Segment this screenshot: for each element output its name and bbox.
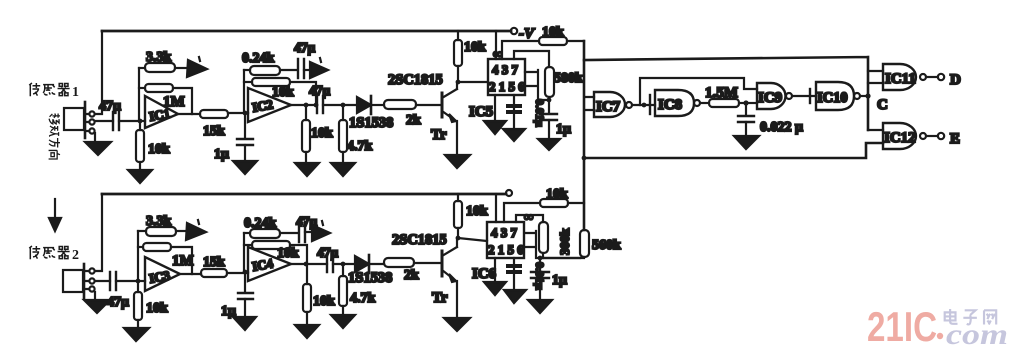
resistor 3.3k channel 2: [138, 214, 187, 236]
supply arrow at IC2 feedback: [310, 58, 328, 78]
capacitor 47u input channel 2: [95, 272, 138, 310]
ground below 4.7k: [331, 163, 355, 176]
svg-text:0.01μ: 0.01μ: [533, 262, 547, 290]
wire IC5 pin 4 to rail: [495, 31, 497, 59]
svg-text:0.24k: 0.24k: [242, 51, 275, 66]
wire IC3 output: [180, 273, 201, 275]
svg-text:0.022 μ: 0.022 μ: [760, 120, 803, 135]
svg-text:2k: 2k: [404, 268, 419, 283]
diode 1S1538 channel 1: [349, 96, 393, 131]
node IC4 input: [243, 270, 248, 275]
svg-text:2SC1815: 2SC1815: [392, 232, 447, 248]
svg-text:∞: ∞: [493, 46, 502, 61]
IC5 timer box: [469, 59, 525, 120]
wire bottom bus line: [582, 143, 883, 160]
svg-text:∞: ∞: [524, 209, 533, 224]
ground below Tr emitter channel 2: [444, 318, 470, 331]
svg-text:47μ: 47μ: [99, 99, 121, 114]
resistor 2k channel 1: [384, 100, 442, 128]
node 4.7k junction: [341, 103, 346, 108]
op-amp IC3: [138, 257, 180, 291]
svg-text:4 3 7: 4 3 7: [491, 225, 518, 240]
resistor 10k shunt after IC2: [302, 105, 333, 163]
resistor 10k feedback IC2: [244, 78, 316, 105]
svg-text:2k: 2k: [406, 113, 421, 128]
mark above IC5: [493, 46, 502, 61]
ground below 1u at IC5: [538, 139, 560, 150]
IC6 timer box: [472, 222, 524, 282]
svg-text:IC12: IC12: [884, 130, 916, 146]
capacitor 1u channel 2: [221, 272, 253, 319]
resistor 0.24k channel 2: [244, 216, 298, 238]
wire feedback left vertical IC2: [243, 70, 245, 113]
svg-text:10k: 10k: [466, 204, 488, 219]
svg-text:0.24k: 0.24k: [244, 216, 277, 231]
svg-text:15k: 15k: [203, 124, 225, 139]
svg-text:560k: 560k: [592, 238, 621, 253]
output E terminal: [926, 131, 960, 147]
resistor 10k collector pull-up channel 1: [454, 31, 486, 84]
resistor 10k collector pull-up channel 2: [454, 194, 488, 240]
svg-text:4.7k: 4.7k: [347, 139, 373, 154]
transistor Tr channel 2 (2SC1815): [392, 232, 457, 318]
wire vertical bus: [583, 41, 586, 230]
wire IC6 pin 7 loop: [516, 215, 543, 222]
supply arrow at 3.3k: [187, 57, 207, 77]
capacitor 0.01u channel 2: [506, 258, 547, 290]
svg-text:2 1 5 6: 2 1 5 6: [489, 79, 525, 94]
svg-text:IC8: IC8: [658, 97, 682, 113]
node input IC1: [138, 119, 143, 124]
wire IC5 pin 1 to ground: [484, 95, 506, 134]
svg-text:C: C: [877, 97, 888, 113]
capacitor 1u channel 1: [214, 113, 253, 162]
node after 1.5M: [743, 100, 757, 105]
ground below 10k shunt channel 2: [295, 325, 319, 338]
svg-text:10k: 10k: [311, 126, 333, 141]
capacitor 47u series channel 2: [317, 245, 355, 272]
svg-text:47μ: 47μ: [309, 83, 331, 98]
wire IC9 to IC10: [792, 89, 816, 103]
svg-text:0.01μ: 0.01μ: [533, 99, 547, 127]
resistor 15k channel 1: [200, 110, 248, 139]
svg-text:300k: 300k: [557, 228, 572, 256]
wire IC6 pin 1 to ground: [484, 258, 506, 295]
label sensor 1 (Chinese): [29, 83, 69, 96]
svg-text:D: D: [950, 72, 961, 88]
resistor 580k channel 1: [545, 67, 583, 100]
label sensor 2 (Chinese): [29, 246, 69, 259]
wire rail drop to sensor 2: [95, 194, 102, 271]
wire IC6 pin 4 to rail: [495, 194, 497, 222]
mark above IC6: [524, 209, 533, 224]
nand gate IC10: [816, 82, 860, 110]
ground below 0.022u: [734, 136, 759, 149]
sensor 1 transducer: [64, 102, 95, 138]
svg-text:-V: -V: [519, 26, 536, 42]
ground below 1u channel 1: [233, 161, 257, 174]
transistor Tr channel 1 (2SC1815): [388, 72, 457, 155]
output D terminal: [926, 72, 961, 88]
svg-text:IC9: IC9: [758, 90, 782, 106]
ground below Tr emitter channel 1: [445, 155, 470, 168]
wire top rail channel 1: [102, 30, 511, 33]
svg-text:47μ: 47μ: [107, 295, 129, 310]
svg-text:Tr: Tr: [431, 127, 447, 143]
resistor 1.5M: [700, 85, 746, 107]
op-amp IC2: [245, 88, 291, 122]
capacitor 47u feedback channel 2: [296, 214, 318, 242]
svg-text:15k: 15k: [203, 255, 225, 270]
svg-text:10k: 10k: [542, 25, 564, 40]
nand gate IC9: [757, 83, 792, 109]
node terminal channel 2: [506, 190, 512, 196]
wire IC6 pin 3 loop and resistor 10k top channel 2: [504, 187, 584, 222]
svg-text:IC6: IC6: [472, 266, 497, 282]
supply arrow at IC4 feedback: [312, 221, 330, 241]
svg-text:2: 2: [72, 248, 79, 263]
svg-text:1S1538: 1S1538: [349, 115, 393, 131]
svg-text:47μ: 47μ: [317, 245, 339, 260]
nand gate IC11: [868, 64, 926, 90]
wire feedback left vertical IC1: [138, 68, 140, 121]
op-amp IC1: [140, 96, 178, 128]
svg-text:IC5: IC5: [469, 104, 493, 120]
wire IC5 pin 3 loop and resistor 10k top: [502, 25, 584, 59]
resistor 560k channel 2: [540, 230, 621, 258]
node -V terminal: [511, 26, 536, 42]
svg-text:1μ: 1μ: [214, 147, 229, 162]
resistor 15k channel 2: [201, 255, 248, 277]
wire IC6 right pins bracket: [525, 231, 580, 258]
ground below 10k channel 1: [128, 170, 152, 183]
ground below 0.01u channel 2: [504, 290, 526, 303]
ground below sensor 1: [85, 133, 111, 155]
resistor 10k input shunt channel 2: [134, 281, 168, 328]
resistor 1M feedback IC3: [138, 243, 194, 274]
resistor 0.24k channel 1: [242, 51, 297, 75]
nand gate IC12: [868, 123, 926, 149]
svg-text:IC7: IC7: [596, 99, 621, 115]
svg-text:1S1538: 1S1538: [348, 270, 392, 286]
watermark 21IC.com: [867, 303, 1008, 351]
svg-text:1M: 1M: [172, 253, 194, 269]
wire feedback left vertical IC3: [137, 231, 139, 281]
capacitor 47u input channel 1: [95, 99, 140, 130]
svg-text:1μ: 1μ: [552, 273, 567, 288]
svg-text:10k: 10k: [546, 187, 568, 202]
wire top bus line: [584, 57, 868, 130]
resistor 4.7k channel 1: [339, 105, 373, 163]
node IC2 input: [243, 111, 248, 116]
watermark Chinese (electronics net): [945, 309, 996, 325]
capacitor 1u at 580k node: [540, 98, 571, 139]
svg-text:10k: 10k: [313, 294, 335, 309]
capacitor 47u feedback channel 1: [294, 40, 316, 78]
wire rail drop to sensor 1: [96, 31, 102, 114]
wire IC7 output to IC8: [632, 103, 655, 108]
svg-text:4.7k: 4.7k: [350, 291, 376, 306]
wire collector to IC5 pin 2: [458, 81, 488, 83]
capacitor 0.01u channel 1: [506, 95, 547, 129]
wire IC5 pin 7 loop: [514, 51, 549, 67]
svg-text:IC10: IC10: [817, 90, 848, 106]
wire top rail channel 2: [102, 193, 506, 196]
ground below sensor 2: [84, 292, 110, 313]
svg-text:3.3k: 3.3k: [146, 50, 172, 65]
movement direction arrow: [49, 199, 61, 231]
svg-text:4 3 7: 4 3 7: [492, 62, 519, 77]
wire IC5 right pins bracket: [525, 70, 549, 100]
svg-text:2SC1815: 2SC1815: [388, 72, 443, 88]
svg-text:Tr: Tr: [432, 290, 448, 306]
label movement direction (Chinese, vertical): [49, 113, 60, 159]
svg-text:10k: 10k: [464, 40, 486, 55]
ground below 10k channel 2: [124, 328, 149, 341]
sensor 2 transducer: [63, 264, 95, 298]
resistor 10k feedback IC4: [244, 241, 307, 264]
svg-text:IC11: IC11: [885, 71, 916, 87]
wire feedforward loop to IC9: [640, 78, 757, 105]
svg-text:47μ: 47μ: [294, 40, 316, 55]
capacitor 47u series channel 1: [309, 83, 357, 113]
diode 1S1538 channel 2: [348, 255, 392, 286]
svg-text:580k: 580k: [554, 71, 583, 86]
svg-text:1μ: 1μ: [556, 122, 571, 137]
ground below 4.7k channel 2: [331, 315, 355, 328]
wire collector to IC6 pin 2: [458, 238, 487, 241]
resistor 4.7k channel 2: [339, 264, 376, 315]
nand gate IC7: [586, 92, 632, 117]
wire feedback left vertical IC4: [243, 233, 245, 272]
node input IC3: [136, 279, 141, 284]
resistor 1M feedback IC1: [139, 84, 192, 114]
op-amp IC4: [245, 247, 291, 281]
svg-text:21IC: 21IC: [867, 303, 937, 350]
svg-text:10k: 10k: [146, 301, 168, 316]
svg-text:1.5M: 1.5M: [705, 85, 738, 101]
svg-text:1: 1: [72, 85, 79, 100]
resistor 300k channel 2: [539, 222, 572, 258]
wire IC2 output row: [291, 103, 318, 108]
svg-text:2 1 5 6: 2 1 5 6: [488, 242, 524, 257]
nand gate IC8: [650, 90, 700, 116]
ground below 10k shunt: [295, 163, 319, 176]
node 4.7k junction channel 2: [341, 262, 346, 267]
ground below 1u at IC6: [528, 300, 552, 313]
resistor 10k input shunt channel 1: [136, 121, 170, 170]
wire IC10 output to node C: [860, 93, 871, 98]
ground below 0.01u channel 1: [503, 129, 525, 141]
capacitor 0.022u: [738, 103, 803, 136]
resistor 2k channel 2: [384, 258, 442, 283]
supply arrow at 3.3k channel 2: [186, 220, 206, 240]
resistor 10k shunt after IC4: [303, 264, 335, 325]
svg-text:3.3k: 3.3k: [146, 214, 172, 229]
ground below 1u channel 2: [233, 317, 256, 330]
wire IC1 output: [178, 113, 200, 115]
resistor 3.3k channel 1: [139, 50, 188, 72]
capacitor 1u at 300k node: [531, 256, 567, 300]
node C label: [877, 97, 888, 113]
svg-text:10k: 10k: [148, 142, 170, 157]
svg-text:E: E: [950, 131, 960, 147]
wire IC4 output row: [291, 262, 327, 267]
